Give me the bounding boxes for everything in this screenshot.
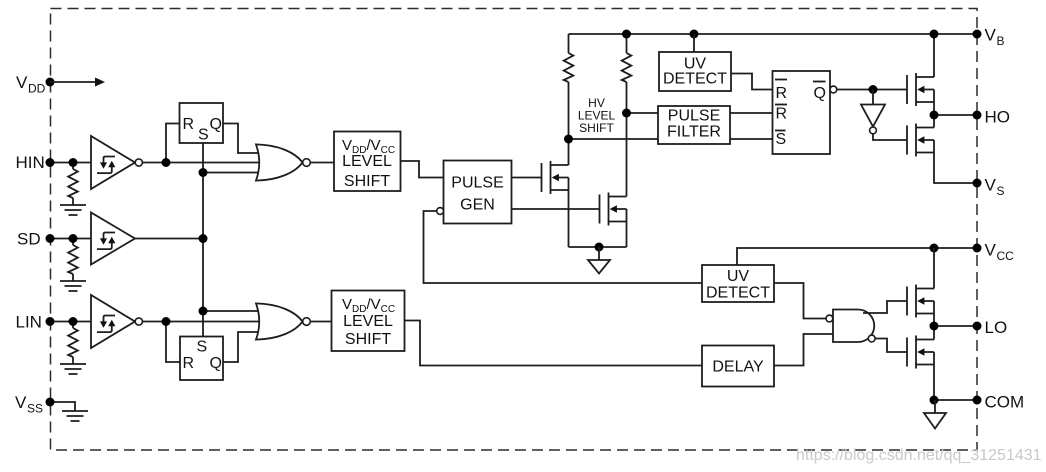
wire UV1 to latch3: [731, 74, 773, 90]
wire VB top rail: [569, 33, 978, 35]
pin VCC label: [985, 241, 1015, 264]
ground VSS: [62, 411, 88, 421]
node LO junction: [930, 322, 939, 331]
wire pulsegen feedback to UV2: [424, 211, 703, 283]
node Qbar junction: [869, 85, 878, 94]
wire VDD arrow: [50, 78, 105, 87]
wire HO lower drain: [933, 115, 935, 128]
wire gate1 lower input: [203, 172, 260, 174]
node VDD pin dot: [46, 78, 55, 87]
svg-text:HIN: HIN: [16, 153, 45, 172]
pin VDD label: [16, 73, 46, 96]
wire HO lower source to VS: [934, 153, 977, 184]
transistor HO upper: [907, 73, 934, 106]
svg-text:SHIFT: SHIFT: [579, 121, 614, 135]
pin VSS label: [15, 393, 43, 416]
wire NOR1 to levelshift1: [310, 162, 334, 164]
svg-text:V: V: [16, 73, 28, 92]
svg-text:V: V: [985, 241, 997, 260]
wire inverter to lower gate: [873, 134, 907, 140]
wire NAND bottom out: [875, 339, 907, 353]
block PULSE GEN: [437, 161, 512, 224]
wire gate2 upper input: [203, 310, 260, 312]
svg-text:V: V: [985, 26, 997, 45]
wire LO node: [934, 325, 977, 327]
wire HIN input: [50, 162, 91, 164]
svg-text:S: S: [776, 131, 787, 148]
node HO pin dot: [973, 111, 982, 120]
svg-text:R: R: [776, 106, 788, 123]
node LIN pin dot: [46, 317, 55, 326]
block PULSE FILTER: [658, 106, 730, 144]
wire HO upper drain: [933, 34, 935, 77]
wire latch2 Q to gate: [223, 332, 260, 362]
node rail dot above res2: [622, 30, 631, 39]
svg-text:DD: DD: [28, 82, 46, 96]
svg-text:SHIFT: SHIFT: [345, 331, 391, 348]
wire NAND top out: [863, 301, 907, 313]
node gate1 input junction: [199, 168, 208, 177]
wire LO lower drain: [933, 326, 935, 340]
pin VB label: [985, 26, 1005, 49]
svg-text:DELAY: DELAY: [712, 359, 764, 376]
wire pulsegen out1: [512, 177, 542, 179]
schmitt buffer LIN: [91, 295, 142, 348]
node VCC rail junction: [930, 244, 939, 253]
wire SD buffer output: [135, 238, 203, 240]
inverter HO: [861, 90, 885, 134]
wire M2 drain: [626, 113, 628, 197]
latch R/S 1: [180, 103, 224, 144]
ground HIN: [60, 205, 86, 215]
wire LO upper drain: [933, 248, 935, 289]
wire NOR2 to levelshift2: [310, 321, 331, 323]
wire levelshift1 to pulsegen: [401, 161, 444, 178]
wire COM node: [934, 399, 977, 401]
node source rail dot: [595, 243, 604, 252]
label HV LEVEL SHIFT: [578, 96, 616, 135]
block VDD/VCC LEVEL SHIFT 1: [334, 132, 401, 192]
transistor LO lower: [907, 336, 934, 369]
wire LO upper source: [933, 314, 935, 327]
ground COM triangle: [924, 400, 946, 429]
schmitt buffer SD: [91, 213, 135, 265]
svg-text:Q: Q: [210, 355, 222, 372]
transistor HV levelshift M1: [542, 161, 569, 194]
svg-text:V: V: [15, 393, 27, 412]
svg-text:LEVEL: LEVEL: [343, 313, 393, 330]
svg-text:LIN: LIN: [16, 313, 42, 332]
wire pulsegen out2: [512, 208, 600, 210]
wire UV2 to NAND: [774, 283, 826, 319]
wire LIN input: [50, 321, 91, 323]
wire HIN buffer output: [142, 162, 260, 164]
wire delay to NAND: [774, 334, 833, 366]
wire HO upper source: [933, 102, 935, 115]
block DELAY: [702, 346, 774, 387]
pin VS label: [985, 176, 1005, 199]
svg-text:DETECT: DETECT: [663, 71, 727, 88]
node res2 junction: [622, 109, 631, 118]
block UV DETECT 1: [659, 52, 731, 91]
block UV DETECT 2: [702, 265, 774, 302]
wire UV1 stub: [693, 34, 695, 52]
node VB rail junction: [930, 30, 939, 39]
svg-text:PULSE: PULSE: [668, 108, 720, 125]
node VCC pin dot: [973, 244, 982, 253]
resistor LIN pulldown: [68, 322, 78, 365]
svg-text:R: R: [183, 116, 195, 133]
svg-text:V: V: [985, 176, 997, 195]
wire pulsefilter out S: [730, 138, 773, 140]
wire VCC rail: [737, 248, 977, 265]
wire M1-M2 source rail: [569, 246, 627, 248]
wire latch2 R input: [166, 322, 181, 363]
svg-text:CC: CC: [997, 249, 1015, 263]
wire HO node: [934, 114, 977, 116]
svg-text:COM: COM: [985, 393, 1025, 412]
block VDD/VCC LEVEL SHIFT 2: [332, 291, 405, 352]
wire pulsefilter out R: [730, 112, 773, 114]
wire res1 to pulsefilter: [569, 138, 659, 140]
ground VS triangle: [588, 247, 610, 274]
svg-text:SD: SD: [17, 230, 41, 249]
node HIN pin dot: [46, 158, 55, 167]
wire common S/SD vertical: [202, 143, 204, 337]
svg-text:https://blog.csdn.net/qq_31251: https://blog.csdn.net/qq_31251431: [796, 447, 1042, 464]
schmitt buffer HIN: [91, 136, 142, 189]
transistor HV levelshift M2: [600, 193, 627, 226]
svg-text:R: R: [183, 355, 195, 372]
wire levelshift2 to delay: [405, 321, 703, 366]
svg-text:S: S: [197, 339, 208, 356]
wire res2 to pulsefilter: [627, 112, 659, 114]
node VB pin dot: [973, 30, 982, 39]
wire LIN buffer output: [142, 321, 260, 323]
node HIN-R junction: [162, 158, 171, 167]
resistor HV2: [622, 34, 632, 113]
transistor LO upper: [907, 285, 934, 318]
node HO junction: [930, 111, 939, 120]
svg-text:FILTER: FILTER: [667, 124, 721, 141]
svg-text:SHIFT: SHIFT: [344, 173, 390, 190]
svg-text:HO: HO: [985, 108, 1011, 127]
node COM pin dot: [973, 396, 982, 405]
svg-text:Q: Q: [210, 116, 222, 133]
wire latch1 Q to gate: [223, 124, 260, 154]
svg-text:Q: Q: [814, 85, 826, 102]
svg-text:LO: LO: [985, 318, 1008, 337]
wire LO lower source: [933, 365, 935, 401]
wire Qbar to HO driver: [837, 89, 907, 91]
wire M1 drain: [568, 139, 570, 165]
wire SD input: [50, 238, 91, 240]
svg-text:LEVEL: LEVEL: [342, 153, 392, 170]
wire M1 source: [568, 190, 570, 247]
ground LIN: [60, 364, 86, 374]
transistor HO lower: [907, 124, 934, 157]
node gate2 input junction: [199, 307, 208, 316]
ground SD: [60, 281, 86, 291]
svg-text:PULSE: PULSE: [451, 175, 503, 192]
node LIN-R junction: [162, 317, 171, 326]
node rail dot above UV1: [690, 30, 699, 39]
node HIN junction dot: [69, 158, 78, 167]
node SD pin dot: [46, 234, 55, 243]
svg-text:UV: UV: [727, 268, 750, 285]
wire VSS to ground: [50, 402, 75, 411]
resistor HV1: [564, 34, 574, 139]
resistor HIN pulldown: [68, 163, 78, 206]
svg-text:S: S: [198, 127, 209, 144]
gate NOR1: [256, 144, 310, 180]
node SD junction dot: [69, 234, 78, 243]
svg-text:R: R: [776, 85, 788, 102]
node LIN junction dot: [69, 317, 78, 326]
svg-text:DETECT: DETECT: [706, 285, 770, 302]
svg-text:B: B: [997, 34, 1005, 48]
resistor SD pulldown: [68, 239, 78, 282]
node VSS pin dot: [46, 398, 55, 407]
node res1 junction: [564, 135, 573, 144]
node COM junction: [930, 396, 939, 405]
gate NAND LO: [826, 310, 875, 343]
node VS pin dot: [973, 179, 982, 188]
wire M2 source: [626, 222, 628, 248]
svg-text:GEN: GEN: [460, 197, 495, 214]
gate NOR2: [256, 303, 310, 339]
node SD-S junction: [199, 234, 208, 243]
wire latch1 R input: [166, 124, 180, 163]
latch RS 3: [773, 71, 837, 154]
latch R/S 2: [180, 337, 223, 381]
svg-text:SS: SS: [27, 402, 43, 416]
svg-text:S: S: [997, 184, 1005, 198]
node LO pin dot: [973, 322, 982, 331]
